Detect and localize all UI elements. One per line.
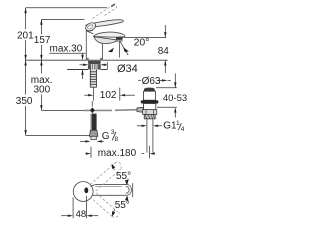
svg-text:4: 4 bbox=[181, 126, 185, 133]
svg-text:Ø63: Ø63 bbox=[142, 76, 161, 87]
svg-text:55°: 55° bbox=[115, 200, 130, 211]
svg-text:8: 8 bbox=[115, 136, 119, 143]
svg-text:G: G bbox=[102, 131, 110, 142]
svg-text:G1: G1 bbox=[163, 120, 177, 131]
svg-text:55°: 55° bbox=[116, 171, 131, 182]
svg-text:40-53: 40-53 bbox=[163, 93, 187, 104]
svg-text:1: 1 bbox=[176, 120, 180, 127]
svg-text:300: 300 bbox=[34, 85, 51, 96]
svg-text:20°: 20° bbox=[134, 37, 150, 49]
svg-text:max.180: max.180 bbox=[98, 148, 137, 159]
svg-text:48: 48 bbox=[76, 209, 87, 220]
svg-text:84: 84 bbox=[158, 46, 170, 57]
svg-text:Ø34: Ø34 bbox=[117, 63, 138, 75]
svg-text:157: 157 bbox=[34, 35, 51, 46]
svg-text:350: 350 bbox=[16, 96, 33, 107]
svg-text:102: 102 bbox=[100, 90, 117, 101]
svg-text:201: 201 bbox=[17, 30, 34, 41]
